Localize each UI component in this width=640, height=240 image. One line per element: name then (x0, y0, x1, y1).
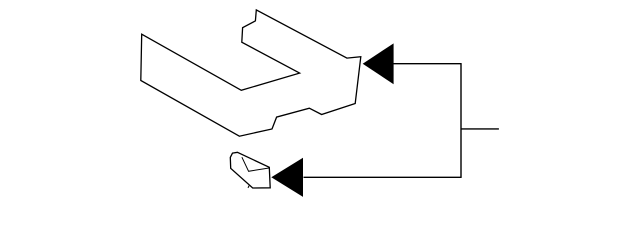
large bracket panel outline (141, 10, 361, 136)
leader line upper horizontal (393, 63, 462, 65)
stub line to right (461, 128, 499, 130)
leader arrowhead lower (271, 158, 303, 197)
leader line vertical (460, 63, 462, 178)
leader line lower horizontal (304, 176, 462, 178)
small clip part outline (230, 152, 270, 188)
small clip notch (248, 186, 249, 188)
leader arrowhead upper (363, 43, 394, 84)
small clip fold line (242, 157, 269, 171)
